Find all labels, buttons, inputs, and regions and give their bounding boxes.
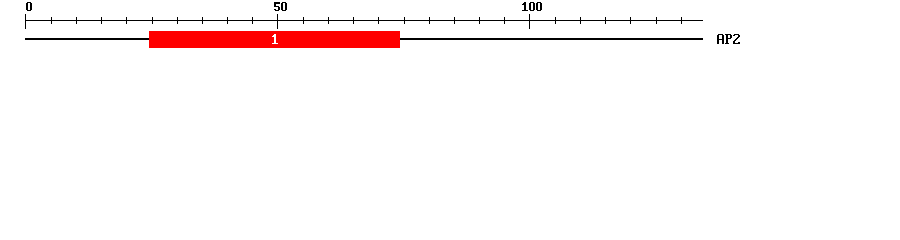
ruler minor ticks (every 5 aa) (51, 17, 682, 24)
ruler major tick 100 (529, 14, 530, 29)
protein sequence line (25, 38, 703, 40)
AP2 domain box (red) (149, 31, 400, 48)
ruler label "50" (274, 2, 287, 11)
domain number "1" (white) (272, 34, 278, 44)
ruler label "0" (26, 2, 32, 11)
ruler axis line (25, 20, 703, 21)
ruler major tick 0 (25, 14, 26, 29)
background (0, 0, 900, 58)
ruler label "100" (522, 2, 542, 11)
ruler major tick 50 (277, 14, 278, 29)
domain name label "AP2" (717, 34, 740, 44)
